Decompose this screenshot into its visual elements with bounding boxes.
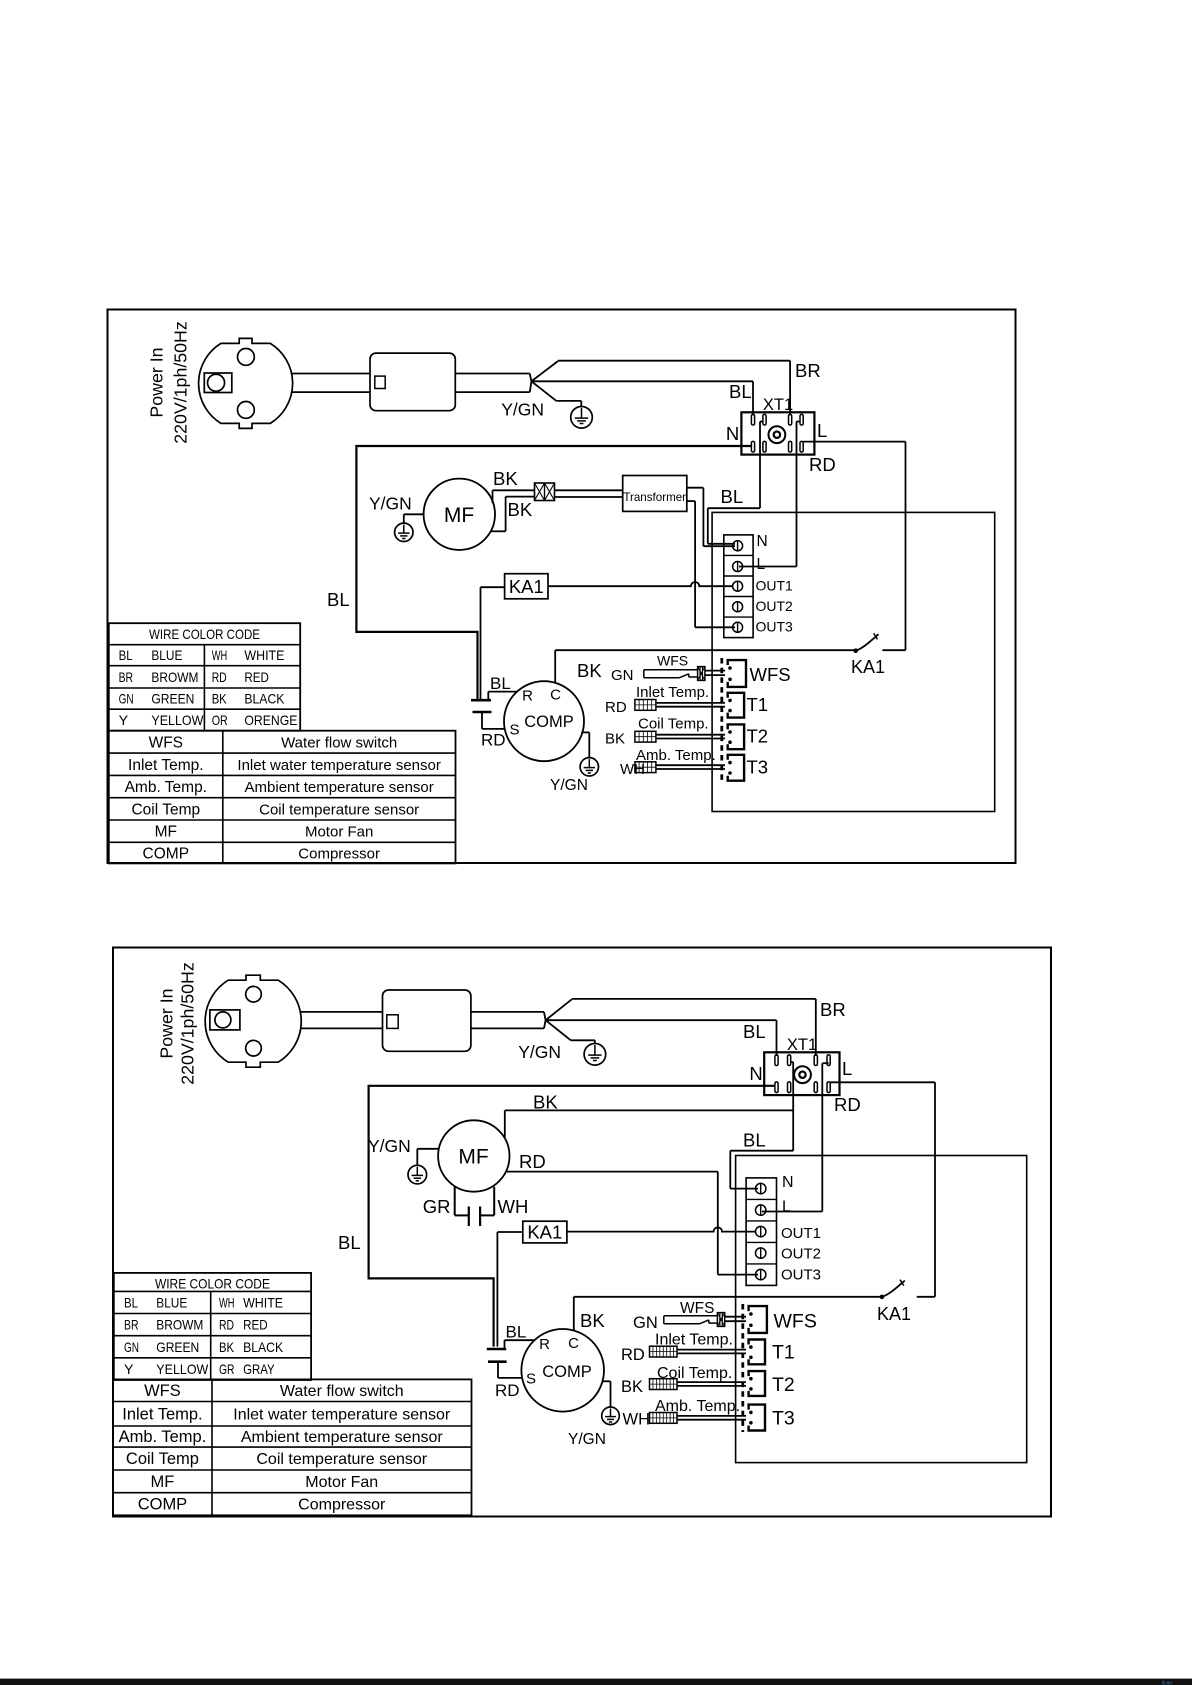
wire Y/GN MF to earth (bottom) xyxy=(417,1148,439,1150)
svg-text:BK: BK xyxy=(605,731,625,748)
diagram border (bottom) xyxy=(113,948,1051,1517)
svg-text:Compressor: Compressor xyxy=(298,845,380,862)
svg-text:RED: RED xyxy=(243,1317,268,1333)
svg-text:Power In: Power In xyxy=(157,988,177,1058)
wires WFS to connector (top) xyxy=(705,670,725,672)
earth symbol near plug (bottom) xyxy=(584,1044,606,1066)
svg-text:WFS: WFS xyxy=(144,1382,181,1400)
svg-text:RD: RD xyxy=(212,669,227,685)
svg-text:MF: MF xyxy=(155,824,177,841)
svg-text:N: N xyxy=(782,1174,794,1191)
svg-text:Coil Temp.: Coil Temp. xyxy=(638,716,709,733)
svg-text:BR: BR xyxy=(820,999,846,1020)
svg-text:L: L xyxy=(782,1199,791,1216)
overload protector (top) xyxy=(471,699,491,702)
wire BR (top) xyxy=(531,361,558,381)
svg-text:BK: BK xyxy=(621,1378,643,1396)
diagram border (top) xyxy=(108,310,1016,864)
svg-text:OUT2: OUT2 xyxy=(756,598,794,614)
wire color code table xyxy=(109,623,300,731)
wire KA1 contact to COMP C (top) xyxy=(555,649,856,651)
connector WFS (bottom) xyxy=(749,1306,767,1333)
svg-text:BLUE: BLUE xyxy=(151,647,182,663)
wire XT1 L down to board L (top) xyxy=(797,421,801,423)
svg-text:BL: BL xyxy=(119,647,133,663)
svg-text:Inlet water temperature sensor: Inlet water temperature sensor xyxy=(233,1406,451,1423)
connector T3 (top) xyxy=(728,755,744,781)
svg-text:Inlet Temp.: Inlet Temp. xyxy=(636,684,709,701)
svg-text:WH: WH xyxy=(623,1411,651,1429)
svg-text:BK: BK xyxy=(533,1092,558,1113)
wire BL to XT1 (top) xyxy=(531,380,753,382)
svg-text:WFS: WFS xyxy=(680,1300,714,1317)
svg-text:GR: GR xyxy=(219,1361,235,1377)
connector T1 (bottom) xyxy=(749,1340,765,1365)
terminal block XT1 (bottom) xyxy=(764,1052,839,1095)
svg-text:BL: BL xyxy=(506,1323,527,1342)
svg-text:YELLOW: YELLOW xyxy=(151,712,204,728)
svg-text:T1: T1 xyxy=(747,694,769,715)
svg-text:BK: BK xyxy=(508,499,533,520)
svg-text:Coil temperature sensor: Coil temperature sensor xyxy=(259,801,419,818)
wire to COMP R (top) xyxy=(487,692,489,701)
svg-text:BR: BR xyxy=(795,360,821,381)
svg-text:BLACK: BLACK xyxy=(244,691,285,707)
svg-text:Y/GN: Y/GN xyxy=(518,1042,561,1062)
svg-text:Y/GN: Y/GN xyxy=(368,1136,411,1156)
wire XT1 N to board N (bottom) xyxy=(791,1061,794,1063)
svg-text:C: C xyxy=(568,1335,579,1352)
wire BL enclosure run from XT1 to compressor junction (top) xyxy=(356,446,751,699)
svg-text:OUT2: OUT2 xyxy=(781,1246,821,1263)
compressor COMP (top) xyxy=(504,681,584,761)
svg-text:MF: MF xyxy=(444,504,474,527)
power cable 2 (bottom) xyxy=(471,1011,544,1013)
svg-text:WFS: WFS xyxy=(149,734,183,751)
svg-text:L: L xyxy=(757,556,766,573)
svg-text:BL: BL xyxy=(338,1232,361,1253)
fan motor MF (top) xyxy=(424,479,495,550)
svg-text:WHITE: WHITE xyxy=(244,647,284,663)
svg-text:COMP: COMP xyxy=(143,845,190,862)
svg-text:BL: BL xyxy=(743,1021,766,1042)
wire KA1 coil left to junction (top) xyxy=(481,586,505,588)
svg-text:GN: GN xyxy=(124,1339,139,1355)
svg-text:BL: BL xyxy=(743,1130,766,1151)
svg-text:220V/1ph/50Hz: 220V/1ph/50Hz xyxy=(178,962,198,1085)
terminal block XT1 (top) xyxy=(741,412,814,454)
svg-text:MF: MF xyxy=(151,1473,175,1491)
svg-text:RD: RD xyxy=(519,1151,546,1172)
svg-text:RD: RD xyxy=(809,454,836,475)
svg-text:WFS: WFS xyxy=(657,653,688,669)
wire RD XT1 to relay contact KA1 (top) xyxy=(803,441,905,443)
svg-text:L: L xyxy=(817,420,827,441)
power cable (top) xyxy=(292,373,370,375)
svg-text:WFS: WFS xyxy=(774,1311,817,1333)
svg-text:S: S xyxy=(509,722,519,739)
transformer T (top) xyxy=(623,476,687,512)
earth symbol at COMP (bottom) xyxy=(602,1407,620,1425)
connector dashed edge (top) xyxy=(720,658,723,782)
wire COMP to earth (bottom) xyxy=(603,1380,611,1382)
power plug P1 (bottom) xyxy=(205,975,301,1067)
svg-text:N: N xyxy=(749,1063,762,1084)
wire to COMP R (bottom) xyxy=(504,1340,506,1349)
svg-text:XT1: XT1 xyxy=(787,1036,817,1054)
wire BL enclosure run from XT1 to compressor junction (bottom) xyxy=(369,1086,775,1347)
svg-text:GREEN: GREEN xyxy=(156,1339,199,1355)
power cable (bottom) xyxy=(300,1011,382,1013)
inline filter box (bottom) xyxy=(383,990,471,1051)
svg-text:Amb. Temp.: Amb. Temp. xyxy=(119,1428,207,1446)
control board outline (top) xyxy=(712,512,995,811)
svg-text:T3: T3 xyxy=(747,757,769,778)
wire Y/GN with earth (bottom) xyxy=(546,1020,571,1040)
svg-text:Motor Fan: Motor Fan xyxy=(305,1474,378,1491)
svg-text:S: S xyxy=(526,1370,536,1387)
svg-text:Y/GN: Y/GN xyxy=(369,494,412,514)
svg-text:T2: T2 xyxy=(747,726,769,747)
connector T2 (top) xyxy=(728,724,744,749)
svg-text:Water flow switch: Water flow switch xyxy=(280,1383,404,1400)
wire BK MF lower (top) xyxy=(491,530,506,532)
svg-text:WHITE: WHITE xyxy=(243,1294,283,1310)
svg-text:Water flow switch: Water flow switch xyxy=(281,734,397,751)
svg-text:WIRE COLOR CODE: WIRE COLOR CODE xyxy=(155,1276,270,1292)
wire Y/GN MF to earth (top) xyxy=(404,513,424,515)
svg-text:BK: BK xyxy=(580,1310,605,1331)
wire RD XT1 to relay contact KA1 (bottom) xyxy=(830,1081,935,1083)
earth symbol at MF (top) xyxy=(395,523,413,541)
page footer black bar xyxy=(0,1679,1192,1685)
connector T1 (top) xyxy=(728,693,744,718)
svg-text:GR: GR xyxy=(423,1196,451,1217)
wire transformer to OUT3 terminal (top) xyxy=(687,500,695,502)
svg-text:WH: WH xyxy=(498,1196,529,1217)
svg-text:RED: RED xyxy=(244,669,269,685)
svg-text:WH: WH xyxy=(212,647,228,663)
svg-text:WIRE COLOR CODE: WIRE COLOR CODE xyxy=(149,626,260,642)
svg-text:ORENGE: ORENGE xyxy=(244,712,297,728)
svg-text:T1: T1 xyxy=(772,1342,795,1364)
svg-text:Motor Fan: Motor Fan xyxy=(305,824,373,841)
svg-text:OUT3: OUT3 xyxy=(781,1267,821,1284)
svg-text:BL: BL xyxy=(124,1294,138,1310)
svg-text:GN: GN xyxy=(633,1314,658,1332)
wire color code table xyxy=(114,1273,311,1380)
svg-text:BL: BL xyxy=(721,486,744,507)
svg-text:COMP: COMP xyxy=(524,713,574,731)
power cable 2 (top) xyxy=(455,373,530,375)
svg-text:Inlet Temp.: Inlet Temp. xyxy=(122,1405,202,1423)
wire BR (bottom) xyxy=(546,999,572,1020)
wire KA1 coil left to junction (bottom) xyxy=(497,1231,522,1233)
svg-text:BROWM: BROWM xyxy=(156,1317,203,1333)
svg-text:GN: GN xyxy=(119,691,134,707)
svg-text:KA1: KA1 xyxy=(851,657,885,677)
connector dashed edge (bottom) xyxy=(741,1304,744,1432)
power plug P1 (top) xyxy=(199,338,293,428)
svg-text:R: R xyxy=(522,688,533,705)
svg-text:KA1: KA1 xyxy=(509,576,544,597)
wire XT1 N to board (top) xyxy=(760,421,763,423)
svg-text:KA1: KA1 xyxy=(877,1304,911,1324)
svg-text:Compressor: Compressor xyxy=(298,1497,386,1514)
svg-text:Y/GN: Y/GN xyxy=(550,777,588,794)
earth symbol at MF (bottom) xyxy=(408,1165,427,1184)
svg-text:RD: RD xyxy=(219,1317,234,1333)
svg-text:XT1: XT1 xyxy=(763,396,793,414)
svg-text:YELLOW: YELLOW xyxy=(156,1361,209,1377)
svg-text:BROWM: BROWM xyxy=(151,669,198,685)
wire KA1 coil to OUT1 with hop (top) xyxy=(548,582,733,586)
wire BL to XT1 (bottom) xyxy=(546,1019,777,1021)
connector T2 (bottom) xyxy=(749,1371,765,1396)
relay coil KA1 (top) xyxy=(505,574,548,599)
control board outline (bottom) xyxy=(736,1156,1027,1463)
svg-text:BR: BR xyxy=(119,669,134,685)
cable connector (top) xyxy=(535,483,555,501)
svg-text:Y: Y xyxy=(119,712,129,728)
svg-text:C: C xyxy=(550,687,561,704)
svg-text:Coil temperature sensor: Coil temperature sensor xyxy=(256,1451,427,1468)
wire COMP to earth (top) xyxy=(581,731,589,733)
svg-text:GN: GN xyxy=(611,667,634,684)
wire BK MF upper (top) xyxy=(492,490,494,503)
inline filter box (top) xyxy=(370,353,455,411)
svg-text:T2: T2 xyxy=(772,1374,795,1396)
wire RD MF to OUT3 (bottom) xyxy=(506,1171,718,1173)
svg-text:KA1: KA1 xyxy=(527,1222,562,1243)
wire Y/GN with earth (top) xyxy=(531,381,556,401)
capacitor C1 at MF (bottom) xyxy=(454,1186,456,1215)
svg-text:Ambient temperature sensor: Ambient temperature sensor xyxy=(241,1429,444,1446)
wire KA1 contact to COMP C (bottom) xyxy=(574,1296,882,1298)
svg-text:L: L xyxy=(842,1058,852,1079)
svg-text:WH: WH xyxy=(620,761,645,778)
fan motor MF (bottom) xyxy=(438,1120,509,1191)
svg-text:GRAY: GRAY xyxy=(243,1361,275,1377)
svg-text:OUT1: OUT1 xyxy=(756,578,794,594)
svg-text:Transformer: Transformer xyxy=(623,491,686,504)
svg-text:WH: WH xyxy=(219,1294,235,1310)
relay contact KA1 switch (bottom) xyxy=(880,1295,885,1300)
svg-text:COMP: COMP xyxy=(138,1496,188,1514)
svg-text:BL: BL xyxy=(729,381,752,402)
wire RD to COMP S (top) xyxy=(481,712,483,729)
svg-text:R: R xyxy=(539,1336,550,1353)
wire transformer to N terminal (top) xyxy=(687,487,704,489)
relay coil KA1 (bottom) xyxy=(523,1221,567,1243)
svg-text:N: N xyxy=(757,533,768,550)
wire RD to COMP S (bottom) xyxy=(497,1362,499,1378)
svg-text:BLUE: BLUE xyxy=(156,1294,187,1310)
svg-text:RD: RD xyxy=(621,1346,645,1364)
svg-text:BK: BK xyxy=(212,691,228,707)
svg-text:RD: RD xyxy=(605,699,627,716)
svg-text:Amb. Temp.: Amb. Temp. xyxy=(125,779,207,796)
svg-text:OUT1: OUT1 xyxy=(781,1225,821,1242)
terminal strip N/L/OUT (bottom) xyxy=(746,1178,776,1286)
svg-text:BK: BK xyxy=(219,1339,235,1355)
wires connector to transformer (top) xyxy=(555,489,623,491)
svg-text:OR: OR xyxy=(212,712,228,728)
svg-text:BL: BL xyxy=(490,674,511,693)
svg-text:WFS: WFS xyxy=(750,664,791,685)
earth symbol at COMP (top) xyxy=(580,758,598,776)
terminal strip N/L/OUT (top) xyxy=(724,535,753,638)
svg-text:RD: RD xyxy=(481,730,506,749)
svg-text:COMP: COMP xyxy=(542,1363,592,1381)
svg-text:BK: BK xyxy=(493,468,518,489)
earth symbol near plug (top) xyxy=(571,407,593,429)
relay contact KA1 switch (top) xyxy=(853,648,858,653)
svg-text:BL: BL xyxy=(327,589,350,610)
svg-text:Coil Temp: Coil Temp xyxy=(131,801,200,818)
legend table xyxy=(113,1379,472,1515)
svg-text:Inlet Temp.: Inlet Temp. xyxy=(128,757,204,774)
wire BK MF to XT1 N wire (bottom) xyxy=(504,1110,506,1138)
svg-text:tt-nn: tt-nn xyxy=(1162,1680,1172,1685)
svg-text:N: N xyxy=(726,423,739,444)
wire KA1 coil to OUT1 with hop (bottom) xyxy=(567,1227,756,1231)
legend table xyxy=(109,731,456,864)
svg-text:Power In: Power In xyxy=(147,347,167,417)
wires WFS to connector (bottom) xyxy=(725,1316,746,1318)
svg-text:BLACK: BLACK xyxy=(243,1339,284,1355)
svg-text:GREEN: GREEN xyxy=(151,691,194,707)
svg-text:T3: T3 xyxy=(772,1408,795,1430)
svg-text:BR: BR xyxy=(124,1317,139,1333)
svg-text:Ambient temperature sensor: Ambient temperature sensor xyxy=(245,779,434,796)
svg-text:MF: MF xyxy=(458,1146,488,1169)
svg-text:BK: BK xyxy=(577,660,602,681)
svg-text:Coil Temp: Coil Temp xyxy=(126,1450,199,1468)
svg-text:RD: RD xyxy=(834,1094,861,1115)
wire XT1 L down to board L (bottom) xyxy=(822,1062,828,1064)
svg-text:RD: RD xyxy=(495,1381,520,1400)
overload protector (bottom) xyxy=(487,1348,506,1351)
svg-text:Inlet water temperature sensor: Inlet water temperature sensor xyxy=(237,757,440,774)
connector WFS (top) xyxy=(728,660,746,687)
svg-text:220V/1ph/50Hz: 220V/1ph/50Hz xyxy=(171,321,191,444)
connector T3 (bottom) xyxy=(749,1405,765,1431)
svg-text:Y: Y xyxy=(124,1361,134,1377)
svg-text:Y/GN: Y/GN xyxy=(501,400,544,420)
svg-text:OUT3: OUT3 xyxy=(756,619,794,635)
svg-text:Y/GN: Y/GN xyxy=(568,1431,606,1448)
compressor COMP (bottom) xyxy=(521,1329,604,1412)
